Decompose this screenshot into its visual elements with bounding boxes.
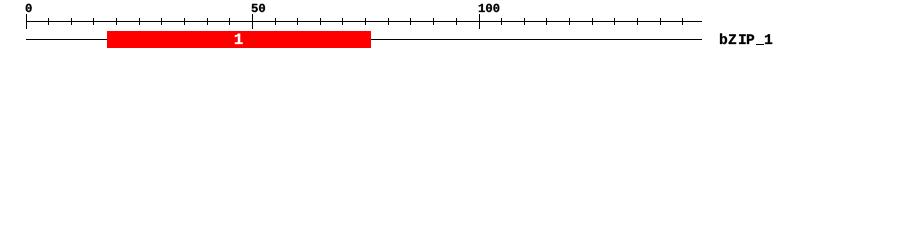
minor ticks — [48, 18, 683, 25]
I — [739, 34, 746, 44]
ruler label 0 — [26, 4, 32, 12]
Z — [729, 34, 736, 44]
background — [0, 0, 900, 58]
sequence line — [26, 39, 702, 40]
domain number 1 — [235, 34, 243, 44]
major tick 0 — [26, 14, 27, 29]
domain box bZIP_1 — [107, 31, 371, 48]
underscore of bZIP_1 — [756, 44, 764, 45]
P — [747, 34, 754, 44]
domain name label bZIP_1: b — [720, 33, 727, 44]
1 — [765, 34, 772, 44]
ruler label 100 — [479, 4, 485, 12]
major tick 100 — [479, 14, 480, 29]
ruler label 50 — [252, 4, 258, 12]
ruler line — [26, 21, 702, 22]
major tick 50 — [252, 14, 253, 29]
